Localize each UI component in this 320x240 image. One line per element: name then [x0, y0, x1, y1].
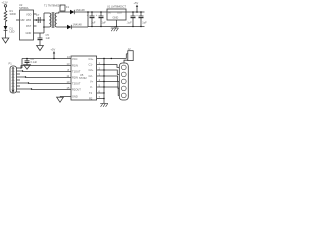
node junction	[103, 86, 104, 87]
wire net gnd stub	[60, 96, 71, 98]
node junction	[132, 26, 133, 27]
capacitor C4	[139, 12, 144, 27]
ground earth symbol	[111, 27, 119, 32]
capacitor C3	[131, 12, 136, 27]
wire D3 out	[71, 26, 88, 28]
wire U5 pin to J1-2	[97, 70, 120, 74]
svg-text:V-: V-	[90, 85, 93, 89]
wire pin y33	[34, 32, 45, 34]
svg-text:+5V: +5V	[134, 1, 139, 5]
node junction	[103, 81, 104, 82]
op-amp U2 supervisor box	[20, 10, 34, 40]
text labels	[2, 1, 148, 101]
LED D1	[4, 26, 8, 30]
wire U5 pin8	[97, 98, 104, 100]
node junction	[28, 82, 29, 83]
node junction	[22, 70, 23, 71]
wire P1 pin stubs	[17, 68, 32, 92]
node junction	[132, 11, 134, 13]
transformer T1	[49, 12, 59, 28]
wire T1 to D3	[58, 26, 67, 28]
wire stub to T1 bottom	[44, 26, 49, 28]
node junction	[100, 11, 102, 13]
svg-text:1uF: 1uF	[101, 20, 106, 24]
transistor J2 small box top	[128, 51, 133, 61]
svg-text:T1OUT: T1OUT	[72, 70, 81, 74]
node +12V terminal top-left	[4, 5, 6, 11]
node junction	[43, 26, 45, 28]
wire U5 pin to J1-1	[97, 65, 120, 68]
node junction	[91, 26, 92, 27]
wire vertical join x88	[87, 12, 89, 27]
wire U5 pin to J1-5	[97, 87, 120, 95]
node junction	[116, 26, 117, 27]
wire net 4	[29, 82, 72, 85]
svg-text:+12V: +12V	[2, 1, 8, 5]
svg-text:T2OUT: T2OUT	[72, 82, 81, 86]
wire regulator gnd pin	[116, 20, 118, 27]
ground	[37, 46, 44, 51]
svg-text:R2OUT: R2OUT	[72, 88, 81, 92]
svg-text:SP690A: SP690A	[19, 6, 29, 10]
svg-text:R1IN: R1IN	[72, 64, 78, 68]
svg-text:VDD: VDD	[26, 13, 32, 17]
wire	[5, 22, 7, 27]
ground	[2, 38, 9, 43]
diode D2	[70, 10, 74, 14]
wire down to P1	[21, 59, 23, 69]
svg-text:WDI: WDI	[26, 18, 31, 22]
svg-text:VCC: VCC	[72, 57, 78, 61]
svg-text:MR: MR	[21, 18, 25, 22]
wire net 1	[20, 66, 71, 69]
wire +5V rail bottom section	[22, 58, 71, 60]
node junction	[87, 11, 89, 13]
svg-text:1uF: 1uF	[91, 20, 96, 24]
svg-text:C1+: C1+	[89, 57, 94, 61]
svg-text:C2+: C2+	[89, 68, 94, 72]
node junction	[103, 92, 104, 93]
node junction	[103, 64, 104, 65]
svg-text:R2: R2	[89, 96, 93, 100]
wire ground bus	[103, 59, 105, 104]
svg-text:T1 TM78M05D: T1 TM78M05D	[44, 4, 61, 8]
svg-text:GND: GND	[113, 16, 119, 20]
capacitor C6	[25, 59, 30, 65]
connector P1 DB9	[10, 66, 17, 93]
capacitor C2	[99, 12, 104, 27]
wire pin stub y26	[34, 25, 37, 27]
node junction	[140, 26, 141, 27]
capacitor C7 series	[38, 17, 40, 23]
op-amp U1 regulator box	[107, 9, 126, 20]
svg-text:C2-: C2-	[89, 74, 93, 78]
node junction	[20, 67, 21, 68]
wire J2 to connector	[124, 60, 128, 63]
node junction	[25, 76, 26, 77]
wire stub to T1 top	[44, 12, 49, 14]
resistor R1	[4, 11, 7, 22]
node junction	[111, 58, 112, 59]
wire net 3	[26, 76, 72, 79]
capacitor C1	[90, 12, 95, 27]
node junction	[103, 98, 104, 99]
wire pin MR	[16, 19, 20, 21]
svg-text:ST232: ST232	[79, 76, 87, 80]
svg-text:330R: 330R	[10, 12, 16, 16]
svg-text:RST: RST	[26, 24, 32, 28]
svg-text:OUT: OUT	[117, 11, 123, 15]
svg-text:1uF: 1uF	[46, 36, 51, 40]
node junction	[26, 58, 28, 60]
svg-text:R2IN: R2IN	[72, 76, 78, 80]
wire rail +12	[74, 11, 144, 13]
wire U5 pin7	[97, 92, 104, 94]
node junction	[140, 11, 142, 13]
node +5V arrow	[136, 5, 138, 13]
wire	[5, 30, 7, 38]
wire pin stub y14	[34, 13, 37, 15]
wire vertical x44	[43, 13, 45, 33]
op-amp U5 transceiver box	[71, 56, 97, 100]
wire ground rail	[88, 26, 145, 28]
wire pin OUT y20	[34, 19, 45, 21]
ground	[24, 65, 31, 69]
node junction	[103, 69, 104, 70]
diode D3	[67, 25, 71, 29]
svg-text:GND: GND	[26, 31, 32, 35]
connector J1 DIN	[119, 63, 128, 100]
svg-text:1N4148: 1N4148	[76, 8, 86, 12]
node junction	[43, 19, 45, 21]
svg-text:GND: GND	[72, 95, 78, 99]
node junction	[91, 11, 93, 13]
fuse F1	[60, 5, 65, 11]
wire T1 to D2	[58, 12, 70, 13]
svg-text:0.1uF: 0.1uF	[31, 60, 38, 64]
node junction	[100, 26, 101, 27]
svg-text:C7: C7	[36, 13, 40, 17]
capacitor C5 to ground	[38, 33, 43, 46]
ground earth symbol	[100, 104, 108, 107]
wire net 5	[32, 88, 72, 91]
svg-text:IN: IN	[108, 11, 111, 15]
svg-text:C1-: C1-	[89, 63, 93, 67]
wire U5 pin1 to J2	[97, 54, 128, 59]
svg-text:1uF: 1uF	[142, 20, 147, 24]
wire net 2	[23, 70, 72, 73]
wire U5 pin to J1-4	[97, 82, 120, 89]
node +5V arrow bottom	[53, 51, 55, 59]
node junction	[103, 58, 104, 59]
ground	[57, 97, 64, 102]
node junction	[103, 75, 104, 76]
svg-text:P1: P1	[9, 62, 13, 66]
wire to ground	[59, 96, 61, 99]
svg-text:.1uF: .1uF	[127, 20, 133, 24]
wire U5 pin to J1-3	[97, 76, 120, 81]
node junction	[31, 88, 32, 89]
svg-text:+5V: +5V	[51, 48, 56, 52]
svg-text:1N4148: 1N4148	[73, 23, 83, 27]
svg-text:U1 LM78M05CT: U1 LM78M05CT	[107, 5, 126, 9]
node junction	[36, 19, 38, 21]
svg-text:V+: V+	[90, 80, 94, 84]
svg-text:LED: LED	[10, 30, 15, 34]
